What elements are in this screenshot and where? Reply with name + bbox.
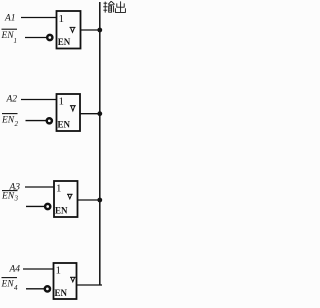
label EN4 (active-low, overline) [1, 279, 19, 292]
svg-text:EN: EN [1, 192, 15, 202]
U4 qualifier 1 [56, 265, 62, 277]
wire U1 output [81, 29, 100, 31]
wire U2 output [80, 113, 100, 115]
tri-state buffer U2 body [57, 94, 81, 131]
label EN2 (active-low, overline) [1, 115, 19, 128]
svg-text:A4: A4 [9, 264, 21, 274]
U2 tri-state symbol [70, 106, 76, 111]
inverting bubble EN3 [45, 204, 50, 209]
label A1 [4, 13, 16, 23]
overline EN3 [2, 190, 18, 192]
svg-text:EN: EN [55, 206, 68, 216]
label A2 [6, 94, 18, 104]
svg-text:1: 1 [59, 13, 65, 25]
svg-text:1: 1 [59, 96, 65, 108]
overline EN2 [2, 113, 18, 115]
inverting bubble EN4 [45, 286, 50, 291]
label EN3 (active-low, overline) [1, 192, 19, 203]
svg-text:A2: A2 [6, 94, 18, 104]
wire A2 input [21, 99, 57, 101]
svg-text:1: 1 [56, 265, 62, 277]
wire EN4 input [26, 288, 44, 290]
svg-text:EN: EN [1, 31, 15, 41]
U3 qualifier 1 [56, 183, 62, 195]
svg-text:4: 4 [14, 284, 18, 292]
U1 qualifier 1 [59, 13, 65, 25]
output bus wire [99, 2, 101, 285]
wire EN2 input [26, 120, 47, 122]
svg-text:EN: EN [55, 288, 68, 298]
wire U4 output [77, 284, 103, 286]
svg-text:A1: A1 [4, 13, 16, 23]
svg-text:1: 1 [56, 183, 62, 195]
U1 tri-state symbol [70, 27, 76, 32]
label A4 [9, 264, 21, 274]
U1 EN pin label [58, 37, 71, 47]
junction node 1 [97, 28, 102, 33]
junction node 3 [97, 198, 102, 203]
overline EN4 [2, 277, 18, 279]
junction node 2 [97, 111, 102, 116]
U4 EN pin label [55, 288, 68, 298]
inverting bubble EN1 [47, 35, 52, 40]
U2 EN pin label [58, 120, 71, 130]
wire EN1 input [25, 37, 46, 39]
wire A1 input [21, 17, 57, 19]
U3 tri-state symbol [67, 194, 73, 199]
wire U3 output [78, 199, 100, 201]
inverting bubble EN2 [47, 118, 52, 123]
wire EN3 input [26, 205, 44, 207]
svg-text:2: 2 [15, 120, 19, 128]
svg-text:3: 3 [14, 195, 19, 203]
label A3 [9, 183, 21, 193]
tri-state buffer U4 body [54, 263, 77, 299]
svg-text:EN: EN [58, 37, 71, 47]
wire A4 input [23, 268, 54, 270]
svg-text:EN: EN [58, 120, 71, 130]
tri-state buffer U1 body [57, 11, 81, 49]
label 输出 (output) [103, 1, 125, 12]
svg-text:EN: EN [1, 115, 15, 125]
U2 qualifier 1 [59, 96, 65, 108]
svg-text:1: 1 [14, 37, 18, 45]
U4 tri-state symbol [70, 277, 76, 282]
svg-text:EN: EN [1, 279, 15, 289]
overline EN1 [2, 28, 18, 30]
label EN1 (active-low, overline) [1, 31, 18, 45]
wire A3 input [25, 186, 54, 188]
U3 EN pin label [55, 206, 68, 216]
tri-state buffer U3 body [54, 181, 78, 217]
